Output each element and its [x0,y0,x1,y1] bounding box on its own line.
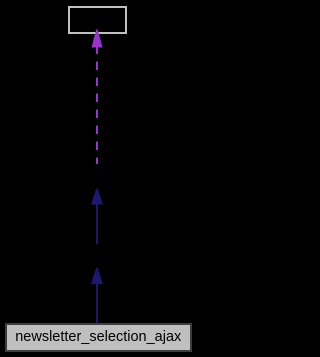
node: top (empty box) [68,6,127,34]
wire: dashed usage edge (magenta) [92,30,103,164]
node: newsletter_selection_ajax [5,323,192,352]
wire: solid include edge (navy, middle) [91,189,103,245]
edges [0,0,195,357]
wire: solid include edge (navy, bottom) [91,268,103,325]
